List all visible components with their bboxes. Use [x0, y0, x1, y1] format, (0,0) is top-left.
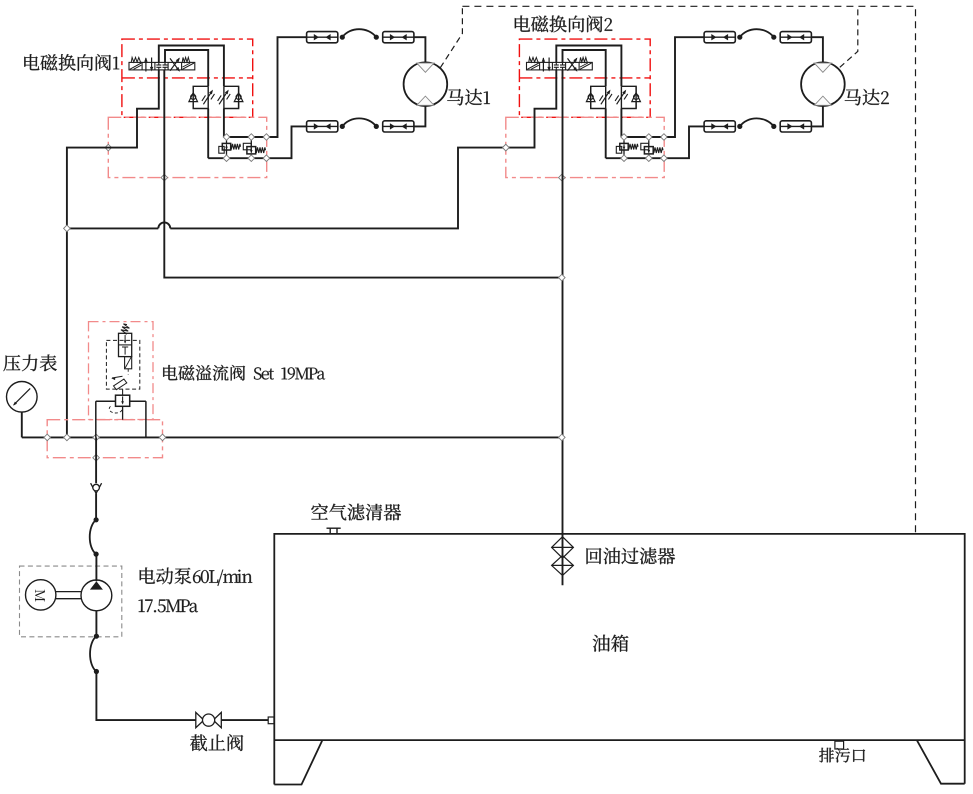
- junction nodes group1: [223, 134, 230, 141]
- label 回油过滤器: [587, 548, 676, 565]
- one-way flow control FC1b (right): [224, 86, 239, 108]
- hydraulic motor M1: [404, 62, 448, 106]
- enclosure solenoid relief valve (red dashed): [89, 322, 154, 420]
- drain line motor1 (dashed): [440, 6, 462, 67]
- spring left DV2: [529, 57, 539, 62]
- label 排污口: [819, 748, 865, 763]
- solenoid coil left DV1: [130, 63, 142, 69]
- quick coupling QC13: [307, 121, 338, 132]
- enclosure manifold (red dash-dot) valve1 upper: [122, 39, 253, 117]
- junction nodes group2: [621, 134, 628, 141]
- wire FC1a stem down: [207, 109, 209, 159]
- label 压力表: [3, 355, 56, 372]
- hydraulic pump: [81, 580, 112, 611]
- hose (flex) pump inlet: [90, 520, 96, 554]
- drain line motor2 (dashed): [840, 6, 858, 67]
- label 电磁换向阀2: [515, 15, 612, 32]
- solenoid pilot valve 2/2: [121, 324, 129, 334]
- wire relief bottom rail group1: [208, 126, 306, 158]
- wire relief outlet to return: [163, 436, 562, 438]
- wire FC2b stem down: [620, 109, 622, 138]
- tank left leg: [274, 741, 322, 785]
- quick coupling QC24: [780, 121, 811, 132]
- oil tank 油箱 outline: [274, 534, 964, 785]
- tank right leg: [917, 740, 965, 784]
- port relief valve RV1a: [226, 137, 228, 143]
- junction node pressure bus: [64, 225, 71, 232]
- DV2 center position blocked ports: [555, 62, 557, 65]
- port relief valve RV2a: [623, 137, 625, 143]
- enclosure manifold (red dash-dot) valve1 lower: [108, 117, 266, 177]
- DV2 position-a parallel arrows: [542, 58, 544, 72]
- solenoid coil right DV2: [580, 63, 592, 69]
- drain port 排污口: [835, 741, 844, 749]
- label 电动泵60L/min: [140, 568, 253, 586]
- wire P2 pressure from valve2 (with crossover hop): [170, 70, 556, 229]
- hose (flex) pump suction: [90, 636, 96, 671]
- one-way flow control FC2a (left): [591, 86, 606, 108]
- junction node return join: [559, 274, 566, 281]
- wire to motor2 top: [811, 37, 823, 62]
- label 马达2: [845, 89, 889, 106]
- wire FC1b stem down: [223, 109, 225, 138]
- label 截止阀: [190, 734, 243, 751]
- DV1 position-a parallel arrows: [145, 58, 147, 72]
- spring right DV1: [182, 57, 190, 62]
- hydraulic motor M2: [801, 62, 845, 106]
- wire relief top rail group1: [224, 37, 307, 137]
- label 马达1: [447, 89, 490, 106]
- hose (flex) top group2: [740, 29, 774, 37]
- air filter symbol: [327, 527, 341, 529]
- label 17.5MPa: [139, 599, 198, 612]
- enclosure red separator line valve1: [122, 77, 253, 79]
- quick coupling QC14: [383, 121, 414, 132]
- enclosure relief manifold (red): [47, 420, 162, 458]
- hose (flex) top group1: [342, 29, 376, 37]
- DV1 center position blocked ports: [158, 62, 160, 65]
- DV1 position-b crossed arrows: [170, 58, 179, 70]
- solenoid coil left DV2: [527, 63, 539, 69]
- solenoid coil pilot: [125, 357, 132, 369]
- enclosure manifold (red dash-dot) valve2 upper: [519, 39, 650, 117]
- check valve (ball in V): [95, 437, 97, 483]
- wire work port B2: [563, 50, 606, 86]
- label 油箱: [593, 635, 629, 652]
- spring left DV1: [131, 57, 141, 62]
- one-way flow control FC2b (right): [621, 86, 636, 108]
- junction node P2/red-edge: [503, 144, 510, 151]
- stop valve 截止阀: [196, 712, 204, 727]
- solenoid directional valve DV2 (4/3) body: [527, 62, 593, 70]
- wire P1 pressure from valve1: [67, 70, 159, 438]
- quick coupling QC12: [383, 32, 414, 43]
- wire relief piping: [96, 400, 116, 402]
- wire to motor2 bottom: [811, 106, 823, 126]
- pressure gauge 压力表: [6, 382, 37, 413]
- enclosure red separator line valve2: [519, 77, 650, 79]
- wire to motor1 bottom: [414, 106, 426, 126]
- quick coupling QC23: [704, 121, 735, 132]
- wire T1 tank return valve1: [164, 70, 562, 278]
- quick coupling QC11: [307, 32, 338, 43]
- wire work port B1: [165, 50, 208, 86]
- quick coupling QC22: [780, 32, 811, 43]
- wire work port A1: [159, 46, 224, 87]
- quick coupling QC21: [704, 32, 735, 43]
- label 空气滤清器: [311, 504, 401, 521]
- solenoid directional valve DV1 (4/3) body: [129, 62, 195, 70]
- tank inlet connector: [268, 717, 274, 724]
- pilot lever symbol: [114, 379, 127, 390]
- spring right DV2: [580, 57, 588, 62]
- pilot enclosure (black dashed): [106, 340, 139, 389]
- wire work port A2: [556, 46, 621, 87]
- shaft: [56, 591, 81, 593]
- drain header (dashed) to tank: [462, 6, 915, 534]
- port relief valve RV2b: [648, 137, 650, 147]
- one-way flow control FC1a (left): [193, 86, 208, 108]
- port relief valve RV1b: [250, 137, 252, 147]
- hose (flex) bottom group1: [342, 118, 376, 126]
- wire suction to stop valve: [96, 672, 195, 721]
- wire pump outlet... actually suction below: [95, 611, 97, 636]
- return filter 回油过滤器: [552, 537, 574, 558]
- wire to motor1 top: [414, 37, 426, 62]
- junction nodes on bus: [44, 434, 51, 441]
- solenoid coil right DV1: [182, 63, 194, 69]
- main relief cartridge: [116, 395, 130, 406]
- wire relief bottom rail group2: [606, 126, 704, 158]
- wire relief top rail group2: [621, 37, 704, 137]
- wire T2 tank return valve2 down to filter: [562, 70, 564, 585]
- electric motor M: [26, 580, 56, 610]
- hose (flex) bottom group2: [740, 118, 774, 126]
- wire main pressure bus: [22, 436, 163, 438]
- label 电磁换向阀1: [24, 54, 119, 71]
- wire gauge stem: [21, 412, 23, 437]
- DV2 position-b crossed arrows: [568, 58, 577, 70]
- wire FC2a stem down: [605, 109, 607, 159]
- label 电磁溢流阀 Set 19MPa: [163, 365, 325, 381]
- electric pump unit enclosure: [20, 566, 122, 637]
- enclosure manifold (red dash-dot) valve2 lower: [506, 117, 664, 177]
- wire stop valve to tank: [221, 719, 268, 721]
